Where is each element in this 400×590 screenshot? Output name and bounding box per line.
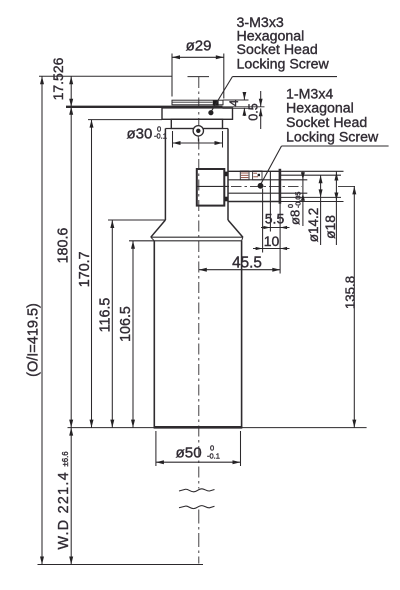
arrows ø14.2 xyxy=(319,175,323,183)
svg-text:Locking Screw: Locking Screw xyxy=(286,129,379,145)
dim line ø18 xyxy=(335,171,337,245)
main cylinder ø50 xyxy=(154,241,243,428)
dim 4 line xyxy=(243,92,245,100)
svg-text:17.526: 17.526 xyxy=(50,57,66,100)
connector tube step line xyxy=(269,171,271,201)
dim 5.5 line xyxy=(261,227,290,229)
label ø30 with tolerance xyxy=(127,125,167,143)
neck body xyxy=(164,129,166,221)
svg-text:ø50: ø50 xyxy=(176,445,202,462)
arrows O/I xyxy=(40,76,44,84)
svg-text:Locking Screw: Locking Screw xyxy=(237,56,330,72)
svg-text:ø14.2: ø14.2 xyxy=(306,208,321,243)
top extension line xyxy=(39,75,172,77)
connector axis centerline xyxy=(197,185,229,187)
flange disc ø29 xyxy=(172,100,223,105)
arrows ø29 xyxy=(172,55,180,59)
leader dot 3-M3x3 xyxy=(208,110,213,115)
connector cap end thick line xyxy=(279,169,282,204)
locking screw on disc (3-M3x3) xyxy=(213,101,219,106)
thread hole section 2 xyxy=(253,171,262,180)
arrows 116.5 xyxy=(110,220,114,228)
connector tube outer lines xyxy=(228,171,280,201)
dim ø30 line xyxy=(173,142,223,144)
dim ø50 line xyxy=(156,461,241,463)
arrows 106.5 xyxy=(131,241,135,249)
svg-text:ø29: ø29 xyxy=(186,38,212,55)
dim ø29 line xyxy=(172,56,224,58)
left reference extension y=220 xyxy=(108,219,165,221)
arrows dim 4 xyxy=(243,92,247,100)
arrows ø30 xyxy=(173,141,181,145)
right ext lines for ø dims xyxy=(280,170,344,172)
svg-text:ø30: ø30 xyxy=(127,126,153,143)
dim ø29 extension lines xyxy=(171,54,173,97)
svg-text:180.6: 180.6 xyxy=(56,228,72,264)
arrows dim 0.5 xyxy=(259,99,263,107)
left reference extension y=240.8 xyxy=(129,240,154,242)
clamp band A xyxy=(162,108,233,119)
leader dot 1-M3x4 xyxy=(258,183,264,189)
break squiggle upper xyxy=(179,489,215,492)
dim 10 line xyxy=(253,248,290,250)
note 3-M3x3 xyxy=(237,15,330,73)
arrows 135.8 xyxy=(352,186,356,194)
dim line 106.5 xyxy=(132,241,134,428)
bottom extension line xyxy=(68,427,155,429)
bottom object line xyxy=(38,564,204,566)
svg-text:(O/I=419.5): (O/I=419.5) xyxy=(26,303,42,377)
left reference extension y=119.6 xyxy=(88,119,162,121)
taper shoulder xyxy=(151,220,243,241)
vertical centerline xyxy=(198,77,200,489)
front locking screw circle xyxy=(193,126,203,142)
leader line 1-M3x4 xyxy=(261,146,389,185)
svg-text:-0.05: -0.05 xyxy=(294,192,303,208)
ext 10 left xyxy=(262,189,264,253)
svg-text:135.8: 135.8 xyxy=(343,276,358,309)
svg-text:10: 10 xyxy=(264,233,280,249)
svg-text:0.5: 0.5 xyxy=(247,103,261,120)
note 1-M3x4 xyxy=(286,86,379,145)
svg-text:106.5: 106.5 xyxy=(118,306,134,342)
centerline top bar xyxy=(188,76,210,78)
label ø8 with tolerance xyxy=(286,192,303,225)
connector joint marks xyxy=(225,172,228,177)
label ø50 with tolerance xyxy=(176,444,220,462)
arrows 5.5 xyxy=(263,226,270,229)
arrows W.D xyxy=(69,428,73,436)
svg-text:W.D 221.4: W.D 221.4 xyxy=(56,471,72,549)
arrows 180.6 xyxy=(69,107,73,115)
dim line O/I x=42 xyxy=(41,76,43,564)
svg-text:4: 4 xyxy=(227,99,241,106)
arrows 170.7 xyxy=(90,120,94,128)
thread hole section 1 xyxy=(240,171,249,180)
dim line 135.8 xyxy=(353,186,355,427)
extension line for 0.5 dim xyxy=(223,106,265,108)
dim 45.5 line xyxy=(199,269,280,271)
dim line 170.7 xyxy=(91,120,93,428)
label W.D 221.4 ±6.6 xyxy=(56,451,72,549)
svg-text:-0.1: -0.1 xyxy=(207,451,220,460)
arrows 10 xyxy=(256,247,263,250)
dim line x=71 (17.526 / 180.6 / W.D) xyxy=(70,76,72,564)
svg-text:ø18: ø18 xyxy=(323,215,338,239)
arrows ø8 xyxy=(301,172,305,180)
vertical centerline lower xyxy=(198,510,200,564)
dim line 116.5 xyxy=(111,220,113,428)
arrows 17.526 xyxy=(69,76,73,84)
dim ø30 extension lines xyxy=(172,131,174,148)
arrows 45.5 xyxy=(199,268,207,272)
svg-text:116.5: 116.5 xyxy=(97,298,113,333)
svg-text:45.5: 45.5 xyxy=(232,254,262,271)
leader line 3-M3x3 xyxy=(211,77,337,112)
dim ø50 ext lines xyxy=(155,431,157,466)
svg-text:5.5: 5.5 xyxy=(265,211,285,227)
svg-text:-0.1: -0.1 xyxy=(154,131,167,140)
spigot band B (ø30) xyxy=(171,119,222,128)
arrows ø18 xyxy=(334,173,338,181)
ext 5.5 left xyxy=(269,202,271,232)
break squiggle lower xyxy=(179,506,215,509)
arrows ø50 xyxy=(156,460,164,464)
dim 0.5 line xyxy=(260,91,262,107)
dim line ø8 xyxy=(302,172,304,227)
ext cap end down xyxy=(279,204,281,274)
dim line ø14.2 xyxy=(320,175,322,245)
svg-text:±6.6: ±6.6 xyxy=(61,451,70,466)
side connector block xyxy=(197,169,225,206)
flange mounting surface thick line xyxy=(66,106,223,108)
svg-text:ø8: ø8 xyxy=(288,210,303,225)
svg-text:170.7: 170.7 xyxy=(77,251,93,287)
dim 4 extension line xyxy=(223,99,249,101)
